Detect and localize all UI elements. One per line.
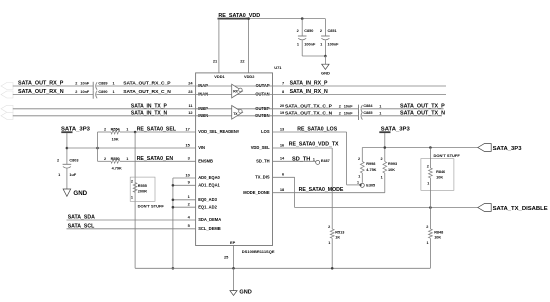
svg-text:1: 1 [313, 157, 315, 161]
svg-text:E305: E305 [366, 183, 375, 187]
wire SATA_OUT_RX_N [13, 94, 93, 96]
svg-text:4.75K: 4.75K [366, 168, 376, 172]
wire SATA_SDA to pin 4 [67, 219, 196, 221]
off-page connector SATA_IN_TX_P [1, 105, 13, 112]
svg-text:SDA_DEMA: SDA_DEMA [198, 217, 221, 222]
wire AD bus column [172, 178, 174, 268]
svg-text:1: 1 [131, 195, 133, 199]
svg-text:SATA_3P3: SATA_3P3 [493, 146, 523, 152]
svg-text:SATA_OUT_RX_N: SATA_OUT_RX_N [18, 89, 64, 95]
resistor R998 4.75K [361, 148, 363, 162]
junction pin 2 [172, 206, 175, 209]
svg-text:SATA_IN_RX_P: SATA_IN_RX_P [290, 81, 328, 87]
wire SATA_IN_RX_N pin 8 [273, 94, 447, 96]
svg-text:10: 10 [185, 172, 189, 177]
svg-text:2: 2 [75, 90, 77, 94]
svg-text:EP: EP [230, 240, 236, 245]
resistor R513 1K [330, 229, 334, 238]
wire SATA_OUT_TX_N [362, 115, 442, 117]
svg-text:10nF: 10nF [344, 104, 354, 108]
svg-text:2: 2 [358, 157, 360, 161]
capacitor C850 100nF [301, 19, 303, 36]
svg-text:4.79K: 4.79K [112, 166, 122, 170]
svg-text:1: 1 [427, 181, 429, 185]
junction AD bus gnd rail [172, 267, 175, 270]
svg-text:R555: R555 [138, 184, 147, 188]
svg-text:1: 1 [379, 111, 381, 115]
svg-text:1: 1 [126, 157, 128, 161]
svg-text:SATA_TX_DISABLE: SATA_TX_DISABLE [493, 206, 548, 212]
off-page connector SATA_3P3 [478, 144, 491, 152]
wire VIN pin 15 [67, 147, 196, 149]
svg-text:2: 2 [131, 180, 133, 184]
wire RE_SATA0_SEL to pin 17 [135, 131, 196, 133]
svg-text:RE_SATA0_LOS: RE_SATA0_LOS [297, 127, 337, 133]
svg-text:LOS: LOS [261, 129, 270, 134]
svg-text:R513: R513 [335, 230, 344, 234]
wire TX_DIS down [294, 177, 296, 207]
svg-text:2: 2 [320, 29, 322, 33]
svg-text:TX_DIS: TX_DIS [255, 174, 270, 179]
wire EQ1_AD2 pin 2 [173, 206, 196, 208]
wire 3P3 column [97, 132, 99, 161]
junction 3P3 R993 [384, 146, 387, 149]
svg-text:RE_SATA0_SEL: RE_SATA0_SEL [137, 127, 177, 133]
svg-text:SATA_OUT_RX_P: SATA_OUT_RX_P [18, 81, 64, 87]
svg-text:AD1_EQA1: AD1_EQA1 [198, 182, 220, 187]
wire AD0_EQA0 pin 10 [173, 177, 196, 179]
svg-text:1: 1 [426, 241, 428, 245]
svg-text:VIN: VIN [198, 145, 205, 150]
svg-text:C885: C885 [363, 111, 372, 115]
svg-text:2: 2 [380, 157, 382, 161]
svg-text:2: 2 [104, 128, 106, 132]
svg-text:2: 2 [57, 159, 59, 163]
op-amp U71 DS100BR111SQE redriver IC body [196, 73, 273, 246]
svg-text:EQ1_AD2: EQ1_AD2 [198, 204, 217, 209]
svg-text:ENSMB: ENSMB [198, 158, 213, 163]
wire VDD rail [248, 18, 326, 20]
svg-text:SATA_OUT_TX_C_N: SATA_OUT_TX_C_N [285, 110, 333, 116]
wire VDD_TX column down [331, 148, 333, 229]
svg-text:1: 1 [328, 241, 330, 245]
svg-text:2: 2 [297, 29, 299, 33]
svg-text:1: 1 [112, 90, 114, 94]
resistor R554 10K [98, 131, 111, 133]
svg-text:EQ0_AD3: EQ0_AD3 [198, 197, 217, 202]
off-page connector SATA_OUT_RX_N [1, 91, 13, 98]
svg-text:2: 2 [339, 111, 341, 115]
svg-text:100nF: 100nF [328, 42, 340, 46]
ground bottom [233, 268, 235, 290]
svg-text:10nF: 10nF [80, 82, 90, 86]
wire RE_SATA0_LOS pin 13 [273, 131, 347, 133]
junction R846 R848 [429, 206, 432, 209]
svg-text:SD_TH: SD_TH [256, 158, 269, 163]
svg-text:1: 1 [112, 82, 114, 86]
svg-text:RE_SATA0_EN: RE_SATA0_EN [137, 156, 174, 162]
wire caps bottom [302, 55, 325, 57]
svg-text:AD0_EQA0: AD0_EQA0 [198, 175, 220, 180]
svg-text:VOD_SEL_READEN#: VOD_SEL_READEN# [198, 129, 240, 134]
wire RE_SATA0_VDD_TX pin 16 [273, 147, 333, 149]
wire RE_SATA0_MODE pin 18 [273, 192, 385, 194]
svg-text:GND: GND [321, 70, 330, 75]
svg-text:TX: TX [233, 112, 238, 116]
svg-text:GND: GND [73, 190, 87, 197]
svg-text:SATA_OUT_TX_P: SATA_OUT_TX_P [400, 103, 445, 109]
svg-text:1: 1 [379, 104, 381, 108]
svg-text:17: 17 [185, 126, 189, 131]
svg-text:SATA_IN_RX_N: SATA_IN_RX_N [290, 89, 328, 95]
wire LOS down [346, 132, 348, 185]
off-page connector SATA_IN_TX_N [1, 112, 13, 119]
svg-text:RE_SATA0_MODE: RE_SATA0_MODE [299, 187, 344, 193]
svg-text:DS100BR111SQE: DS100BR111SQE [242, 249, 275, 254]
wire SATA_TX_DISABLE [295, 207, 478, 209]
svg-text:2: 2 [104, 157, 106, 161]
svg-text:200R: 200R [138, 190, 147, 194]
svg-text:10K: 10K [112, 137, 119, 141]
svg-text:RE_SATA0_VDD_TX: RE_SATA0_VDD_TX [289, 142, 339, 148]
svg-text:7: 7 [282, 80, 284, 85]
svg-text:VDD1: VDD1 [214, 74, 225, 79]
svg-text:10K: 10K [388, 168, 395, 172]
svg-text:SATA_IN_TX_P: SATA_IN_TX_P [131, 103, 168, 109]
resistor R555 200R dont stuff [130, 177, 155, 201]
wire EQ0_AD3 pin 1 [173, 199, 196, 201]
wire LOS to E305 [347, 184, 361, 186]
off-page connector SATA_TX_DISABLE [478, 204, 491, 212]
ground left [63, 189, 71, 196]
wire SATA_IN_RX_P pin 7 [273, 85, 447, 87]
svg-text:R846: R846 [436, 170, 445, 174]
wire RX input A inside [196, 85, 273, 87]
svg-text:RX: RX [233, 90, 238, 94]
svg-text:C890: C890 [98, 90, 107, 94]
svg-text:VDD_SEL: VDD_SEL [251, 145, 270, 150]
svg-text:1: 1 [126, 128, 128, 132]
svg-text:SD_TH: SD_TH [292, 156, 310, 162]
svg-text:1: 1 [320, 42, 322, 46]
svg-text:SATA_OUT_TX_C_P: SATA_OUT_TX_C_P [285, 103, 333, 109]
wire SATA_IN_TX_N to pin 12 [13, 115, 196, 117]
resistor R993 10K [383, 162, 387, 174]
capacitor C889 10nF [92, 82, 94, 90]
junction R513 gnd rail [331, 267, 334, 270]
svg-text:GND: GND [239, 289, 251, 295]
capacitor C851 100nF [324, 19, 326, 36]
wire AD1_EQA1 pin 9 [173, 184, 196, 186]
wire SATA_SCL to pin 5 [67, 228, 196, 230]
junction C850 [301, 17, 304, 20]
wire SATA_OUT_TX_P [362, 108, 444, 110]
svg-text:10nF: 10nF [80, 90, 90, 94]
svg-text:SATA_SCL: SATA_SCL [68, 224, 95, 230]
svg-text:DON'T STUFF: DON'T STUFF [434, 153, 461, 158]
svg-text:SATA_OUT_RX_C_P: SATA_OUT_RX_C_P [123, 81, 171, 87]
svg-text:2: 2 [328, 225, 330, 229]
wire SATA_OUT_RX_C_N to pin 23 [96, 94, 195, 96]
wire SATA_IN_TX_P to pin 11 [13, 108, 196, 110]
wire TX_DIS pin 6 [273, 176, 295, 178]
capacitor C803 1uF [63, 163, 72, 165]
svg-text:1K: 1K [335, 235, 340, 239]
svg-text:1: 1 [357, 181, 359, 185]
svg-text:SCL_DEMB: SCL_DEMB [198, 226, 221, 231]
wire VDD1 stub pin 21 [218, 19, 220, 73]
svg-text:SATA_SDA: SATA_SDA [68, 215, 95, 221]
svg-text:SATA_IN_TX_N: SATA_IN_TX_N [131, 110, 168, 116]
wire 3P3 rail [362, 147, 478, 149]
resistor R848 10K [429, 208, 431, 230]
resistor R846 10K dont stuff [421, 159, 454, 191]
capacitor C885 10nF [358, 112, 360, 120]
junction caps gnd [324, 55, 327, 58]
off-page connector SATA_OUT_RX_P [1, 83, 13, 90]
resistor R550 4.79K [98, 160, 111, 162]
svg-text:R550: R550 [111, 157, 120, 161]
svg-text:U71: U71 [274, 65, 282, 70]
junction EP gnd [232, 267, 235, 270]
svg-text:10K: 10K [434, 235, 441, 239]
svg-text:DON'T STUFF: DON'T STUFF [138, 204, 165, 209]
svg-text:2: 2 [426, 225, 428, 229]
wire ground rail [135, 267, 430, 269]
wire SATA_OUT_RX_P [13, 85, 93, 87]
svg-text:VDD2: VDD2 [244, 74, 255, 79]
svg-text:R998: R998 [366, 162, 375, 166]
svg-text:R554: R554 [111, 128, 121, 132]
wire SATA_OUT_RX_C_P to pin 24 [96, 85, 195, 87]
svg-text:10nF: 10nF [344, 111, 354, 115]
junction pin 1 [172, 199, 175, 202]
junction SEL column VIN [96, 147, 99, 150]
wire SATA_OUT_TX_C_P pin 20 [273, 108, 359, 110]
wire VDD2 stub pin 22 [248, 19, 250, 73]
junction 3P3 R846 [429, 146, 432, 149]
svg-text:10K: 10K [436, 175, 443, 179]
svg-text:2: 2 [339, 104, 341, 108]
net tie E305 [360, 183, 364, 187]
svg-text:20: 20 [280, 103, 284, 108]
junction 3P3 VIN [66, 147, 69, 150]
svg-text:1: 1 [381, 175, 383, 179]
svg-text:C803: C803 [69, 159, 78, 163]
svg-text:1uF: 1uF [69, 173, 76, 177]
junction VDD2 [247, 17, 250, 20]
wire TX input B inside [196, 108, 273, 110]
junction R555 on SEL [134, 131, 137, 134]
wire SATA_OUT_TX_C_N pin 19 [273, 115, 359, 117]
wire RE_SATA0_EN to pin 3 [135, 160, 196, 162]
svg-text:1: 1 [358, 175, 360, 179]
svg-text:E487: E487 [321, 159, 330, 163]
svg-text:2: 2 [75, 82, 77, 86]
capacitor C884 10nF [358, 105, 360, 113]
junction pin 9 [172, 184, 175, 187]
svg-text:100nF: 100nF [304, 42, 316, 46]
buffer TX [232, 106, 243, 120]
svg-text:C884: C884 [363, 104, 373, 108]
wire R555 column [134, 132, 136, 268]
svg-text:C851: C851 [328, 29, 337, 33]
svg-text:2: 2 [427, 165, 429, 169]
buffer RX [232, 84, 243, 98]
svg-text:MODE_DONE: MODE_DONE [243, 190, 270, 195]
wire 3P3 stub [384, 133, 386, 162]
svg-text:SATA_OUT_RX_C_N: SATA_OUT_RX_C_N [123, 89, 171, 95]
net tie E487 [316, 160, 320, 164]
svg-text:1: 1 [58, 173, 60, 177]
svg-text:1: 1 [297, 42, 299, 46]
svg-text:R848: R848 [434, 230, 443, 234]
svg-text:R993: R993 [388, 162, 397, 166]
ground top caps [324, 56, 326, 64]
svg-text:C889: C889 [98, 81, 107, 85]
capacitor C890 10nF [92, 90, 94, 98]
wire SD_TH pin 14 [273, 160, 316, 162]
svg-text:C850: C850 [304, 29, 313, 33]
svg-text:SATA_OUT_TX_N: SATA_OUT_TX_N [400, 110, 445, 116]
